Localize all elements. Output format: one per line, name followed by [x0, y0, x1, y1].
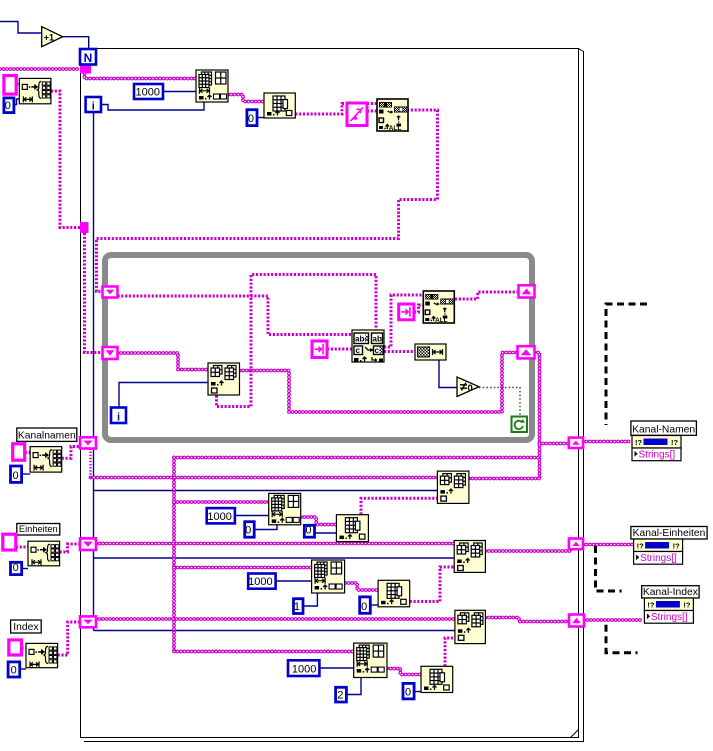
svg-text:!?: !?: [647, 601, 654, 610]
svg-text:1000: 1000: [207, 511, 231, 523]
svg-text:c: c: [375, 346, 380, 355]
svg-text:N: N: [84, 51, 93, 65]
svg-text:0: 0: [361, 601, 367, 613]
svg-text:0: 0: [248, 113, 254, 125]
svg-text:Strings[]: Strings[]: [640, 553, 677, 564]
svg-text:+1: +1: [44, 32, 54, 42]
svg-text:1000: 1000: [248, 576, 272, 588]
svg-text:ALL: ALL: [389, 125, 402, 132]
svg-text:0: 0: [11, 665, 17, 677]
svg-text:Strings[]: Strings[]: [651, 612, 688, 623]
svg-text:!?: !?: [673, 542, 680, 551]
svg-text:0: 0: [468, 383, 473, 394]
svg-text:!?: !?: [637, 542, 644, 551]
svg-text:Index: Index: [13, 622, 39, 633]
svg-text:2: 2: [337, 690, 343, 702]
svg-text:0: 0: [245, 525, 251, 537]
svg-text:0: 0: [12, 470, 18, 482]
svg-text:1000: 1000: [136, 87, 160, 99]
svg-text:ab: ab: [373, 335, 382, 344]
svg-text:Kanalnamen: Kanalnamen: [18, 431, 76, 442]
svg-text:Kanal-Namen: Kanal-Namen: [632, 425, 695, 436]
svg-text:!?: !?: [683, 601, 690, 610]
svg-text:0: 0: [5, 100, 11, 112]
svg-text:1000: 1000: [292, 664, 316, 676]
svg-text:!?: !?: [671, 438, 678, 447]
svg-text:Kanal-Index: Kanal-Index: [643, 587, 699, 598]
svg-text:!?: !?: [635, 438, 642, 447]
svg-text:Strings[]: Strings[]: [639, 450, 676, 461]
svg-text:Einheiten: Einheiten: [19, 524, 58, 534]
svg-text:Kanal-Einheiten: Kanal-Einheiten: [633, 528, 706, 539]
svg-text:0: 0: [405, 686, 411, 698]
svg-text:i: i: [117, 412, 120, 424]
svg-text:i: i: [92, 101, 95, 113]
svg-text:1: 1: [294, 601, 300, 613]
svg-text:0: 0: [13, 562, 19, 574]
svg-text:c: c: [356, 346, 361, 355]
svg-text:ALL: ALL: [435, 317, 448, 324]
svg-text:0: 0: [305, 525, 311, 537]
